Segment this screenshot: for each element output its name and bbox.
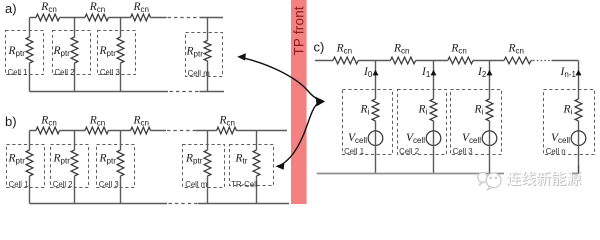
- wire c top rail: [315, 60, 578, 62]
- wire b branch m upper: [207, 131, 209, 151]
- resistor b branch m: [204, 150, 211, 176]
- resistor c Rcn 4: [504, 57, 531, 64]
- wire a branch 2 upper: [74, 18, 76, 38]
- svg-text:TP front: TP front: [292, 6, 307, 55]
- cell box b Cell 2: [51, 145, 89, 188]
- wire c branch 3 through source: [489, 131, 491, 174]
- svg-text:TR-Cell: TR-Cell: [231, 180, 258, 189]
- wire a branch 2 lower: [74, 63, 76, 92]
- svg-text:Cell 3: Cell 3: [453, 147, 473, 156]
- wire a bottom rail: [30, 91, 225, 93]
- svg-text:Cell 1: Cell 1: [344, 147, 364, 156]
- svg-text:Cell 3: Cell 3: [99, 180, 119, 189]
- wire c bottom rail: [317, 173, 579, 175]
- cell box b Cell 3: [97, 145, 135, 188]
- wire c top rail dotted continuation: [533, 60, 551, 62]
- svg-text:Cell m: Cell m: [188, 69, 210, 78]
- cell box b Cell 1: [7, 145, 45, 188]
- cell box c Cell 2: [398, 90, 447, 155]
- wire c branch 1 through source: [375, 131, 377, 174]
- arrow a-to-c curve: [242, 58, 319, 100]
- svg-text:Cell n: Cell n: [546, 147, 566, 156]
- svg-text:Cell 2: Cell 2: [55, 68, 75, 77]
- svg-text:Cell 1: Cell 1: [8, 68, 28, 77]
- resistor a Rptr 2: [71, 37, 78, 63]
- wire c branch n over watermark: [578, 166, 580, 174]
- resistor a Rcn 1: [36, 14, 60, 21]
- wire c branch 3: [489, 61, 491, 100]
- wire b bottom rail dashed continuation: [169, 203, 199, 205]
- arrowhead at c: [316, 97, 326, 107]
- TP front bar: [291, 0, 307, 204]
- wire a branch m upper: [207, 18, 209, 41]
- resistor c Rcn 2: [390, 57, 415, 64]
- arrowhead at a: [237, 53, 246, 60]
- source c Vcell 1 circle: [368, 131, 383, 146]
- svg-text:a): a): [5, 1, 17, 16]
- resistor a Rcn 3: [131, 14, 151, 21]
- cell box a Cell m: [186, 33, 223, 77]
- wire c branch 2 mid: [433, 121, 435, 131]
- wire c branch n mid: [578, 121, 580, 131]
- wire b branch 2 lower: [74, 176, 76, 204]
- current arrowhead I2: [487, 70, 493, 76]
- wire b branch 1 upper: [29, 131, 31, 151]
- cell box b Cell m: [183, 145, 225, 188]
- svg-text:c): c): [314, 40, 325, 55]
- wire c bottom rail end over watermark: [572, 173, 579, 175]
- cell box a Cell 1: [6, 31, 44, 75]
- source c Vcell 2 circle: [426, 131, 441, 146]
- cell box b TR-Cell: [230, 145, 274, 186]
- svg-text:Cell 3: Cell 3: [100, 68, 120, 77]
- resistor c Rcn 1: [333, 57, 358, 64]
- wire b branch 3 upper: [120, 131, 122, 151]
- wire c branch 1 mid: [375, 121, 377, 131]
- svg-text:Cell m: Cell m: [185, 180, 207, 189]
- wire b branch tr upper: [256, 131, 258, 151]
- resistor a Rptr m: [204, 41, 211, 62]
- cell box a Cell 2: [53, 31, 91, 75]
- wire b branch 3 lower: [120, 176, 122, 204]
- wire a branch 1 upper: [29, 18, 31, 38]
- wire a branch 3 upper: [120, 18, 122, 38]
- wire b branch 1 lower: [29, 176, 31, 204]
- resistor a Rptr 1: [26, 37, 33, 63]
- resistor b Rcn 1: [36, 127, 60, 134]
- wire c branch n through source: [578, 131, 580, 174]
- watermark logo bubble large: [486, 173, 501, 190]
- resistor a Rcn 2: [85, 14, 108, 21]
- wire b branch 2 upper: [74, 131, 76, 151]
- watermark backdrop: [504, 168, 585, 189]
- watermark logo bubble small: [478, 173, 488, 186]
- wire c branch 2: [433, 61, 435, 100]
- source c Vcell 3 circle: [482, 131, 497, 146]
- wire a branch m lower: [207, 61, 209, 92]
- svg-text:b): b): [5, 114, 17, 129]
- wire a top rail: [30, 17, 224, 19]
- svg-text:Cell 2: Cell 2: [399, 147, 419, 156]
- resistor c Rcn 3: [448, 57, 473, 64]
- wire a top rail dashed continuation: [168, 17, 200, 19]
- svg-text:Cell 2: Cell 2: [53, 180, 73, 189]
- resistor c Ri 1: [372, 99, 379, 121]
- resistor b Rcn 2: [85, 127, 108, 134]
- source c Vcell n circle: [571, 131, 586, 146]
- wire b top rail: [30, 130, 288, 132]
- arrow b-to-c curve: [280, 104, 318, 166]
- current arrowhead I1: [431, 70, 437, 76]
- resistor b branch 3: [117, 150, 124, 176]
- resistor a Rptr 3: [117, 37, 124, 63]
- resistor b branch 1: [26, 150, 33, 176]
- resistor b Rcn 3: [131, 127, 151, 134]
- current arrowhead In-1: [576, 70, 582, 76]
- wire b top rail dashed continuation: [167, 130, 196, 132]
- svg-text:连线新能源: 连线新能源: [506, 171, 581, 188]
- wire c branch n: [578, 61, 580, 100]
- resistor b branch 2: [71, 150, 78, 176]
- resistor c Ri 2: [430, 99, 437, 121]
- wire a branch 1 lower: [29, 63, 31, 92]
- wire a branch 3 lower: [120, 63, 122, 92]
- wire b bottom rail: [30, 203, 290, 205]
- cell box c Cell n: [544, 90, 595, 155]
- wire c branch 2 through source: [433, 131, 435, 174]
- cell box a Cell 3: [98, 31, 136, 75]
- wire c branch 3 mid: [489, 121, 491, 131]
- cell box c Cell 3: [451, 90, 502, 155]
- resistor b Rcn 4: [217, 127, 237, 134]
- wire c branch 1: [375, 61, 377, 100]
- resistor b branch tr: [253, 150, 260, 176]
- wire a bottom rail dashed continuation: [170, 91, 200, 93]
- current arrowhead I0: [373, 70, 379, 76]
- arrowhead at b: [275, 163, 284, 170]
- cell box c Cell 1: [343, 90, 393, 155]
- svg-text:Cell 1: Cell 1: [9, 180, 29, 189]
- resistor c Ri 3: [486, 99, 493, 121]
- resistor c Ri n: [575, 99, 582, 121]
- wire b branch m lower: [207, 176, 209, 204]
- wire b branch tr lower: [256, 176, 258, 204]
